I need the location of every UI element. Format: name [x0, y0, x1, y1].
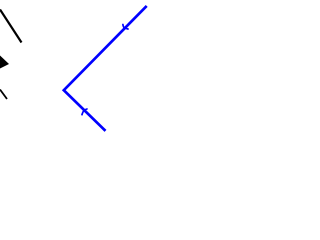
- black segment (left edge lower diagonal): [0, 90, 7, 100]
- arrowhead on ray 1 (points toward vertex): [123, 25, 128, 30]
- arrowhead on ray 2 (points toward vertex): [82, 109, 87, 115]
- black wedge (left edge arrowhead): [0, 56, 9, 69]
- wire: blue ray polyline (ray 1 from top-right down to vertex, ray 2 from vertex to bottom-right): [64, 6, 147, 131]
- black segment (top-left diagonal): [0, 10, 22, 43]
